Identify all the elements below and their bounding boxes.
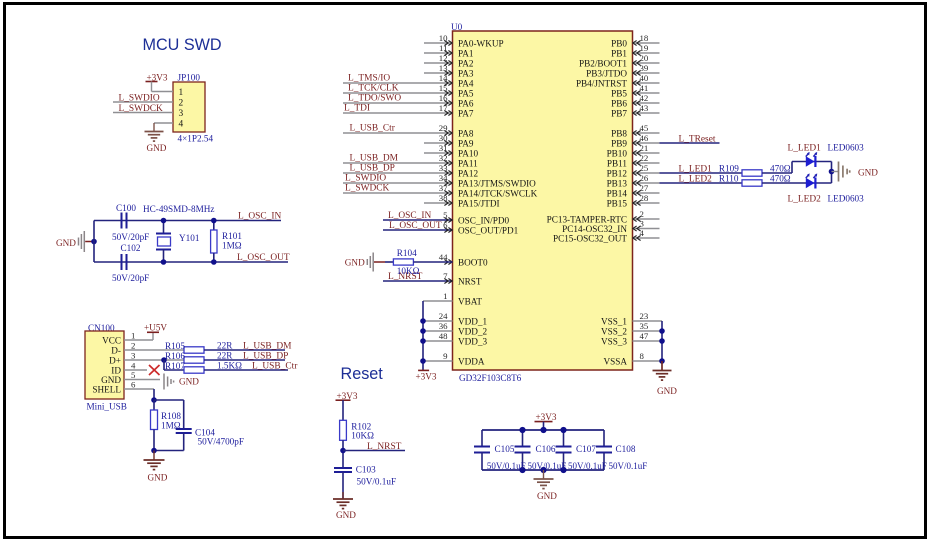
svg-text:PA8: PA8 (458, 128, 474, 138)
svg-text:PB15: PB15 (607, 198, 628, 208)
svg-text:4: 4 (640, 228, 645, 238)
svg-text:SHELL: SHELL (92, 384, 121, 394)
svg-text:PB8: PB8 (611, 128, 627, 138)
svg-text:R106: R106 (165, 351, 185, 361)
svg-text:L_USB_DM: L_USB_DM (243, 341, 292, 351)
svg-text:L_LED2: L_LED2 (679, 174, 713, 184)
svg-text:3: 3 (179, 109, 184, 119)
svg-text:PA13/JTMS/SWDIO: PA13/JTMS/SWDIO (458, 178, 536, 188)
svg-text:C108: C108 (616, 444, 636, 454)
svg-text:24: 24 (439, 311, 448, 321)
svg-text:PA10: PA10 (458, 148, 478, 158)
svg-text:26: 26 (640, 173, 649, 183)
svg-text:PB4/JNTRST: PB4/JNTRST (576, 78, 627, 88)
svg-text:L_USB_DM: L_USB_DM (350, 154, 399, 164)
svg-text:1.5KΩ: 1.5KΩ (217, 360, 242, 370)
svg-text:L_TMS/IO: L_TMS/IO (348, 74, 390, 84)
svg-text:VSS_2: VSS_2 (601, 326, 627, 336)
svg-text:PA2: PA2 (458, 58, 474, 68)
svg-text:C103: C103 (356, 465, 376, 475)
svg-text:PA9: PA9 (458, 138, 474, 148)
svg-text:VSS_3: VSS_3 (601, 336, 627, 346)
svg-text:PA1: PA1 (458, 48, 474, 58)
svg-text:22R: 22R (217, 340, 233, 350)
svg-text:4: 4 (179, 120, 184, 130)
svg-text:PB10: PB10 (607, 148, 628, 158)
svg-text:PB6: PB6 (611, 98, 627, 108)
svg-text:46: 46 (640, 133, 649, 143)
svg-text:PB13: PB13 (607, 178, 628, 188)
svg-text:GND: GND (179, 377, 199, 387)
svg-text:42: 42 (640, 93, 649, 103)
svg-text:40: 40 (640, 73, 649, 83)
svg-text:PA7: PA7 (458, 108, 474, 118)
svg-text:PB7: PB7 (611, 108, 627, 118)
svg-text:50V/20pF: 50V/20pF (112, 273, 149, 283)
svg-text:23: 23 (640, 311, 649, 321)
svg-text:VDD_1: VDD_1 (458, 316, 487, 326)
svg-text:50V/0.1uF: 50V/0.1uF (528, 461, 567, 471)
svg-text:D+: D+ (109, 355, 121, 365)
svg-text:BOOT0: BOOT0 (458, 257, 488, 267)
svg-text:PB0: PB0 (611, 38, 627, 48)
svg-text:ID: ID (111, 365, 121, 375)
svg-text:D-: D- (111, 345, 121, 355)
svg-text:GND: GND (148, 473, 168, 483)
svg-text:28: 28 (640, 193, 649, 203)
svg-text:VDD_2: VDD_2 (458, 326, 487, 336)
svg-text:R105: R105 (165, 341, 185, 351)
svg-text:PB14: PB14 (607, 188, 628, 198)
svg-text:27: 27 (640, 183, 649, 193)
svg-text:C102: C102 (121, 243, 141, 253)
svg-text:R107: R107 (165, 361, 185, 371)
svg-text:9: 9 (443, 351, 448, 361)
svg-text:10KΩ: 10KΩ (397, 266, 420, 276)
svg-text:35: 35 (640, 321, 649, 331)
svg-text:GND: GND (101, 375, 121, 385)
svg-text:2: 2 (179, 99, 184, 109)
svg-text:50V/0.1uF: 50V/0.1uF (568, 461, 607, 471)
svg-text:22: 22 (640, 153, 649, 163)
svg-text:L_TReset: L_TReset (679, 134, 716, 144)
svg-text:NRST: NRST (458, 276, 482, 286)
svg-text:OSC_OUT/PD1: OSC_OUT/PD1 (458, 225, 519, 235)
svg-text:L_LED1: L_LED1 (788, 144, 822, 154)
svg-text:50V/0.1uF: 50V/0.1uF (357, 477, 397, 487)
svg-text:+3V3: +3V3 (536, 412, 557, 422)
svg-text:L_SWDCK: L_SWDCK (345, 184, 390, 194)
svg-text:C107: C107 (576, 444, 596, 454)
svg-text:2: 2 (131, 340, 135, 350)
svg-text:19: 19 (640, 43, 649, 53)
svg-text:VSSA: VSSA (604, 356, 628, 366)
svg-text:VDDA: VDDA (458, 356, 485, 366)
svg-text:5: 5 (131, 370, 136, 380)
svg-text:PA14/JTCK/SWCLK: PA14/JTCK/SWCLK (458, 188, 538, 198)
svg-text:PA4: PA4 (458, 78, 474, 88)
svg-text:45: 45 (640, 123, 649, 133)
svg-text:10KΩ: 10KΩ (351, 431, 374, 441)
svg-text:L_OSC_OUT: L_OSC_OUT (389, 221, 442, 231)
svg-text:PC14-OSC32_IN: PC14-OSC32_IN (562, 224, 627, 234)
svg-text:Y101: Y101 (179, 233, 200, 243)
svg-text:PB2/BOOT1: PB2/BOOT1 (579, 58, 627, 68)
svg-text:VCC: VCC (102, 335, 121, 345)
svg-text:25: 25 (640, 163, 649, 173)
svg-text:2: 2 (640, 209, 644, 219)
svg-text:LED0603: LED0603 (828, 194, 865, 204)
svg-text:1MΩ: 1MΩ (222, 241, 242, 251)
svg-text:L_TDO/SWO: L_TDO/SWO (348, 94, 401, 104)
svg-text:C106: C106 (536, 444, 556, 454)
svg-text:L_LED1: L_LED1 (679, 164, 713, 174)
svg-text:1: 1 (131, 330, 135, 340)
svg-text:JP100: JP100 (178, 73, 201, 83)
svg-text:41: 41 (640, 83, 649, 93)
svg-text:PA6: PA6 (458, 98, 474, 108)
svg-text:C100: C100 (116, 203, 136, 213)
svg-text:21: 21 (640, 143, 649, 153)
svg-text:18: 18 (640, 33, 649, 43)
svg-text:PB3/JTDO: PB3/JTDO (586, 68, 627, 78)
svg-text:L_SWDCK: L_SWDCK (119, 104, 164, 114)
svg-text:GND: GND (858, 168, 878, 178)
svg-text:PA3: PA3 (458, 68, 474, 78)
svg-text:36: 36 (439, 321, 448, 331)
svg-text:50V/0.1uF: 50V/0.1uF (609, 461, 648, 471)
svg-text:PA15/JTDI: PA15/JTDI (458, 198, 500, 208)
svg-text:R109: R109 (719, 163, 739, 173)
svg-text:GND: GND (147, 143, 167, 153)
svg-text:GND: GND (345, 258, 365, 268)
svg-text:43: 43 (640, 103, 649, 113)
svg-text:4: 4 (131, 360, 136, 370)
svg-text:PB12: PB12 (607, 168, 628, 178)
svg-text:3: 3 (131, 350, 136, 360)
svg-text:LED0603: LED0603 (828, 143, 865, 153)
svg-text:6: 6 (131, 379, 136, 389)
svg-text:R104: R104 (397, 248, 417, 258)
svg-text:Mini_USB: Mini_USB (87, 402, 127, 412)
svg-text:R101: R101 (222, 231, 242, 241)
svg-text:48: 48 (439, 331, 448, 341)
svg-text:HC-49SMD-8MHz: HC-49SMD-8MHz (143, 204, 214, 214)
svg-text:GD32F103C8T6: GD32F103C8T6 (459, 373, 522, 383)
svg-text:L_TCK/CLK: L_TCK/CLK (348, 84, 399, 94)
svg-text:PB1: PB1 (611, 48, 627, 58)
svg-text:39: 39 (640, 63, 649, 73)
svg-text:PA11: PA11 (458, 158, 478, 168)
svg-text:8: 8 (640, 351, 645, 361)
svg-text:20: 20 (640, 53, 649, 63)
svg-text:L_USB_DP: L_USB_DP (243, 351, 288, 361)
svg-text:PC15-OSC32_OUT: PC15-OSC32_OUT (553, 233, 627, 243)
svg-text:+U5V: +U5V (144, 323, 167, 333)
svg-text:PB9: PB9 (611, 138, 627, 148)
svg-text:L_OSC_OUT: L_OSC_OUT (237, 253, 290, 263)
svg-text:1: 1 (179, 88, 184, 98)
svg-text:VBAT: VBAT (458, 296, 482, 306)
svg-text:PB5: PB5 (611, 88, 627, 98)
svg-text:L_SWDIO: L_SWDIO (119, 93, 160, 103)
svg-text:L_USB_DP: L_USB_DP (350, 164, 395, 174)
svg-text:22R: 22R (217, 350, 233, 360)
svg-text:470Ω: 470Ω (770, 164, 791, 174)
svg-text:PC13-TAMPER-RTC: PC13-TAMPER-RTC (547, 214, 627, 224)
svg-text:PA0-WKUP: PA0-WKUP (458, 38, 504, 48)
svg-text:GND: GND (336, 510, 356, 520)
svg-text:L_TDI: L_TDI (344, 104, 370, 114)
svg-text:50V/0.1uF: 50V/0.1uF (487, 461, 526, 471)
svg-text:L_OSC_IN: L_OSC_IN (238, 212, 281, 222)
svg-text:VSS_1: VSS_1 (601, 316, 627, 326)
svg-text:OSC_IN/PD0: OSC_IN/PD0 (458, 215, 509, 225)
svg-text:L_USB_Ctr: L_USB_Ctr (350, 124, 396, 134)
svg-text:1: 1 (443, 291, 447, 301)
svg-text:GND: GND (56, 238, 76, 248)
svg-text:VDD_3: VDD_3 (458, 336, 487, 346)
svg-text:R110: R110 (719, 173, 739, 183)
svg-text:R108: R108 (161, 411, 181, 421)
svg-text:L_OSC_IN: L_OSC_IN (388, 211, 431, 221)
svg-text:PA12: PA12 (458, 168, 478, 178)
svg-text:50V/20pF: 50V/20pF (112, 232, 149, 242)
svg-text:MCU SWD: MCU SWD (143, 36, 222, 54)
svg-text:47: 47 (640, 331, 649, 341)
svg-text:3: 3 (640, 219, 645, 229)
svg-text:GND: GND (537, 491, 557, 501)
svg-text:Reset: Reset (341, 365, 384, 383)
svg-text:GND: GND (657, 386, 677, 396)
svg-text:4×1P2.54: 4×1P2.54 (178, 134, 214, 144)
svg-text:L_LED2: L_LED2 (788, 195, 822, 205)
svg-text:L_SWDIO: L_SWDIO (345, 174, 386, 184)
svg-text:PB11: PB11 (607, 158, 627, 168)
svg-text:PA5: PA5 (458, 88, 474, 98)
svg-text:L_USB_Ctr: L_USB_Ctr (252, 361, 298, 371)
svg-text:L_NRST: L_NRST (367, 442, 402, 452)
svg-text:+3V3: +3V3 (416, 371, 437, 381)
svg-text:470Ω: 470Ω (770, 173, 791, 183)
svg-text:C105: C105 (495, 444, 515, 454)
svg-text:50V/4700pF: 50V/4700pF (198, 437, 244, 447)
